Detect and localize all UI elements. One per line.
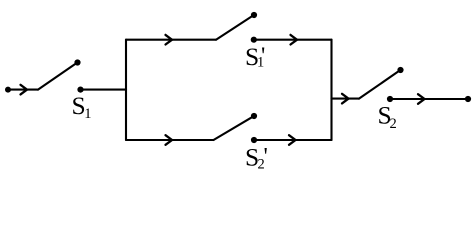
switch S1' blade tip dot <box>251 12 257 18</box>
arrow output <box>418 94 425 104</box>
label S2 <box>378 101 397 133</box>
wire top branch left <box>126 39 216 41</box>
label S2' <box>245 143 268 173</box>
wire top branch right <box>254 39 332 41</box>
switch S1 fixed contact dot <box>77 87 83 93</box>
switch S2' blade <box>214 116 254 140</box>
label S1' <box>245 42 265 71</box>
svg-text:1: 1 <box>84 106 91 122</box>
switch S2' fixed contact dot <box>251 137 257 143</box>
switch S2 fixed contact dot <box>387 96 393 102</box>
switch S1' blade <box>216 15 254 39</box>
arrow top branch left <box>166 35 173 45</box>
svg-text:': ' <box>261 44 265 70</box>
switch S2 blade tip dot <box>397 67 403 73</box>
wire right junction to S2 <box>332 98 360 100</box>
switch S2' blade tip dot <box>251 113 257 119</box>
switch S2 blade <box>359 70 400 98</box>
switch S1 blade tip dot <box>74 59 80 65</box>
arrow before S2 <box>342 94 349 104</box>
node input terminal <box>5 87 11 93</box>
svg-text:': ' <box>264 144 268 170</box>
wire bottom branch right <box>254 139 332 141</box>
arrow bottom branch left <box>166 135 173 145</box>
wire right vertical bus <box>330 40 332 140</box>
arrow bottom branch right <box>289 135 296 145</box>
arrow input <box>21 85 28 95</box>
switch S1 blade <box>38 63 77 90</box>
svg-text:2: 2 <box>390 116 397 132</box>
node output terminal <box>465 96 471 102</box>
label S1 <box>72 91 92 122</box>
arrow top branch right <box>291 35 298 45</box>
wire left vertical bus <box>125 40 127 140</box>
wire input <box>8 89 38 91</box>
wire bottom branch left <box>126 139 214 141</box>
wire output <box>390 98 468 100</box>
switch S1' fixed contact dot <box>251 37 257 43</box>
wire S1 to left junction <box>81 89 127 91</box>
